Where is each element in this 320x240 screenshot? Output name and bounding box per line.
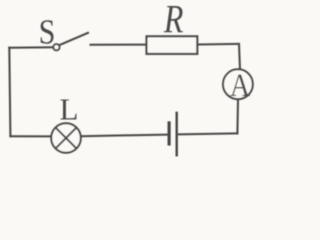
lamp L cross stroke 1 [56,128,76,148]
svg-text:S: S [39,13,56,52]
wire left vertical [9,48,10,137]
wire top left [9,46,53,49]
svg-text:L: L [60,92,79,127]
wire resistor to top-right corner [198,43,239,46]
lamp L body [51,123,81,153]
wire bottom left [10,135,51,137]
lamp L cross stroke 2 [56,128,76,148]
svg-text:R: R [163,0,183,41]
switch S hinge [53,44,59,50]
svg-text:A: A [230,67,250,104]
battery short plate [168,123,171,144]
resistor R body [147,36,198,54]
wire switch to resistor [91,44,147,46]
wire bottom right [179,132,237,135]
paper background [0,0,262,160]
wire right vertical upper [239,44,240,70]
switch S lever [59,33,88,45]
ammeter A body [223,69,253,99]
battery long plate [175,113,177,155]
wire battery to lamp [82,135,168,137]
wire right vertical lower [236,100,239,134]
